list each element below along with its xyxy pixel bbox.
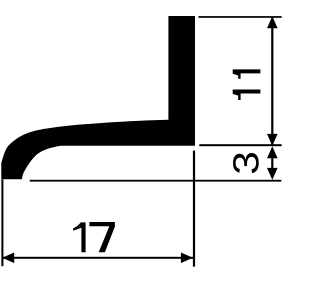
svg-text:3: 3 [227,151,267,175]
extension line right (at bar right edge) [193,151,195,267]
dimension 17 line [3,257,193,259]
dimension 17 label digit 7 [89,222,115,252]
extension line bottom (at foot bottom edge) [30,180,282,182]
dimension 17 arrow left [2,253,14,264]
dimension 17 label digit 1 [73,222,86,252]
dimension 3 connector line [271,155,273,171]
dimension 17 arrow right [181,253,193,264]
profile cross-section body [1,16,195,179]
dimension 3 arrow up [267,146,278,158]
dimension 3 arrow down [267,168,278,180]
dimension 11 arrow up [267,16,278,28]
extension line middle (at web bottom edge) [199,144,281,146]
dimension 11 line [271,17,273,146]
extension line left (at foot left edge) [1,180,3,267]
dimension 11 label digit 1 first [233,90,261,101]
extension line top (at profile top edge) [199,16,282,18]
dimension 11 arrow down [267,134,278,146]
dimension 11 label digit 1 second [233,69,261,78]
